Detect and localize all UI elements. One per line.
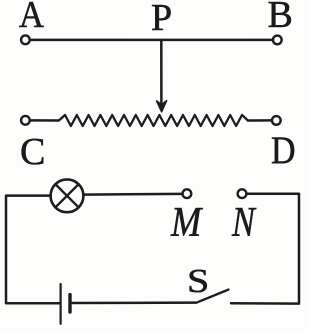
terminal C bbox=[21, 116, 30, 125]
switch S blade bbox=[199, 290, 229, 302]
terminal A bbox=[21, 35, 30, 44]
terminal B bbox=[273, 36, 282, 45]
node label A bbox=[19, 0, 44, 34]
wire C to resistor bbox=[31, 119, 59, 122]
node label D bbox=[271, 131, 296, 170]
wire A to B bbox=[31, 39, 272, 42]
switch label S bbox=[187, 265, 209, 299]
wire lamp to M bbox=[84, 193, 182, 196]
wire resistor to D bbox=[248, 119, 271, 122]
node label P bbox=[151, 0, 172, 37]
terminal M bbox=[183, 189, 192, 198]
terminal D bbox=[272, 116, 281, 125]
lamp L bbox=[51, 179, 84, 212]
wire N to right side of loop bbox=[231, 194, 299, 304]
resistor (rheostat track) bbox=[59, 115, 248, 126]
battery short plate bbox=[68, 295, 71, 312]
node label M bbox=[171, 202, 201, 244]
node label B bbox=[268, 0, 293, 34]
wire left side of loop bbox=[6, 196, 59, 304]
battery long plate bbox=[59, 284, 61, 324]
terminal N bbox=[238, 189, 247, 198]
wiper arrow P bbox=[157, 40, 167, 112]
wire battery to switch bbox=[72, 301, 197, 304]
node label N bbox=[232, 202, 255, 244]
node label C bbox=[20, 133, 45, 171]
